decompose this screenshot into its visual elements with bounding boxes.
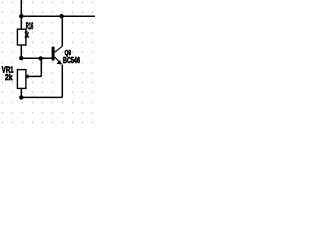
wire wiper horizontal: [28, 75, 42, 77]
node junction top collector: [59, 14, 63, 18]
svg-text:2k: 2k: [5, 72, 13, 82]
transistor emitter diagonal: [54, 57, 61, 64]
wire top horizontal rail: [21, 15, 95, 17]
emitter arrowhead: [57, 60, 62, 65]
node junction top-left: [19, 14, 23, 18]
wire base horizontal: [21, 57, 52, 59]
wire VR1 bottom lead: [20, 88, 22, 97]
node junction base left: [19, 56, 23, 60]
wire R16 top lead: [20, 16, 22, 29]
wire R16 bottom lead: [20, 45, 22, 58]
node junction wiper tap: [39, 56, 43, 60]
wire collector vertical: [61, 16, 63, 46]
svg-text:1k: 1k: [25, 30, 29, 41]
wire wiper vertical: [40, 58, 42, 76]
potentiometer VR1: [17, 70, 26, 89]
wire emitter vertical: [61, 65, 63, 98]
resistor R16: [17, 29, 26, 45]
wire bottom rail: [21, 96, 62, 98]
transistor collector diagonal: [54, 46, 62, 53]
svg-text:BC546: BC546: [63, 57, 80, 65]
wiper arrowhead: [24, 74, 29, 78]
wire top vertical into supply rail: [20, 0, 22, 16]
node junction bottom: [19, 95, 23, 99]
transistor Q9 base bar: [52, 47, 55, 61]
